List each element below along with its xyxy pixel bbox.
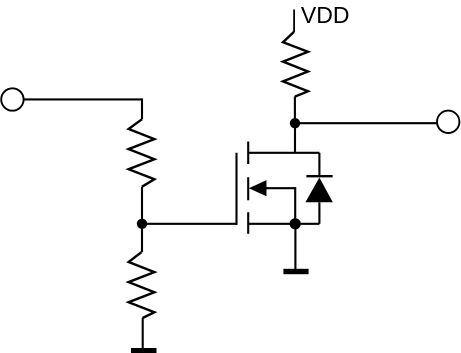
- svg-text:VDD: VDD: [301, 2, 350, 28]
- resistor R1: [129, 119, 155, 187]
- wire R1 to gate node: [141, 187, 143, 224]
- node gate (junction): [137, 219, 147, 229]
- diode D1 cathode bar: [306, 175, 332, 177]
- ground (left): [131, 348, 157, 353]
- wire left vertical to R1: [141, 98, 143, 119]
- diode D1 top lead: [318, 153, 320, 176]
- wire node to drain: [294, 123, 296, 153]
- diode D1 anode triangle: [305, 178, 332, 203]
- resistor R3: [283, 32, 308, 97]
- wire R2 to ground: [142, 318, 144, 349]
- diode D1 bottom lead: [318, 202, 320, 224]
- wire VDD lead: [293, 10, 295, 33]
- resistor R2: [129, 252, 155, 318]
- transistor Q1 channel segments: [247, 142, 249, 234]
- ground (right): [283, 269, 308, 274]
- wire source to ground: [294, 224, 296, 269]
- node output (junction): [290, 118, 300, 128]
- wire bulk arrow to source: [266, 188, 296, 224]
- input terminal: [1, 88, 23, 110]
- wire output horizontal: [295, 122, 437, 124]
- wire node to R2: [141, 224, 143, 252]
- transistor Q1 gate bar: [235, 153, 237, 225]
- node source (junction): [290, 218, 301, 229]
- transistor Q1 source stub: [248, 223, 319, 225]
- wire R3 to output node: [294, 96, 296, 123]
- wire input horizontal: [24, 98, 142, 100]
- output terminal: [437, 111, 459, 133]
- transistor Q1 bulk arrow: [249, 180, 267, 196]
- wire gate horizontal: [142, 223, 237, 225]
- transistor Q1 drain stub: [248, 152, 319, 154]
